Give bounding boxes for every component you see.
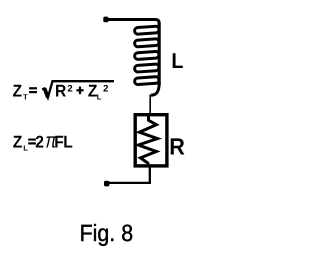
svg-text:2: 2 bbox=[67, 83, 72, 94]
svg-text:Z: Z bbox=[13, 133, 23, 152]
formula Z_L = 2(pi)FL bbox=[13, 130, 73, 153]
plus sign of formula 1 (drawn) bbox=[76, 89, 83, 91]
wire (coil to resistor, thin vertical) bbox=[149, 95, 151, 115]
equals sign of formula 2 (drawn) bbox=[28, 139, 36, 141]
node B (bottom terminal dot) bbox=[104, 181, 109, 187]
resistor R (box) bbox=[135, 115, 167, 166]
wire (coil bottom curl) bbox=[151, 83, 159, 95]
wire (top horizontal from terminal to coil, rounded corner down) bbox=[107, 20, 159, 86]
wire (resistor bottom to corner and left to terminal) bbox=[108, 166, 151, 183]
resistor R (zigzag element) bbox=[138, 115, 157, 167]
formula Z_T = sqrt(R^2 + Z_L^2) bbox=[13, 81, 109, 101]
svg-text:Z: Z bbox=[13, 81, 23, 100]
svg-text:R: R bbox=[169, 134, 185, 160]
svg-text:Fig. 8: Fig. 8 bbox=[80, 220, 134, 246]
svg-text:L: L bbox=[63, 133, 73, 152]
svg-text:2: 2 bbox=[103, 83, 108, 94]
equals sign of formula 1 (drawn) bbox=[29, 87, 37, 89]
svg-text:L: L bbox=[171, 49, 183, 73]
node A (top terminal dot) bbox=[103, 17, 108, 23]
inductor L (coil of 5 loops) bbox=[134, 26, 159, 85]
svg-text:L: L bbox=[97, 93, 102, 102]
svg-text:2: 2 bbox=[35, 133, 44, 152]
svg-text:R: R bbox=[55, 81, 66, 100]
radical sign of formula 1 bbox=[42, 81, 114, 97]
svg-text:T: T bbox=[23, 93, 28, 102]
svg-text:L: L bbox=[23, 144, 28, 153]
